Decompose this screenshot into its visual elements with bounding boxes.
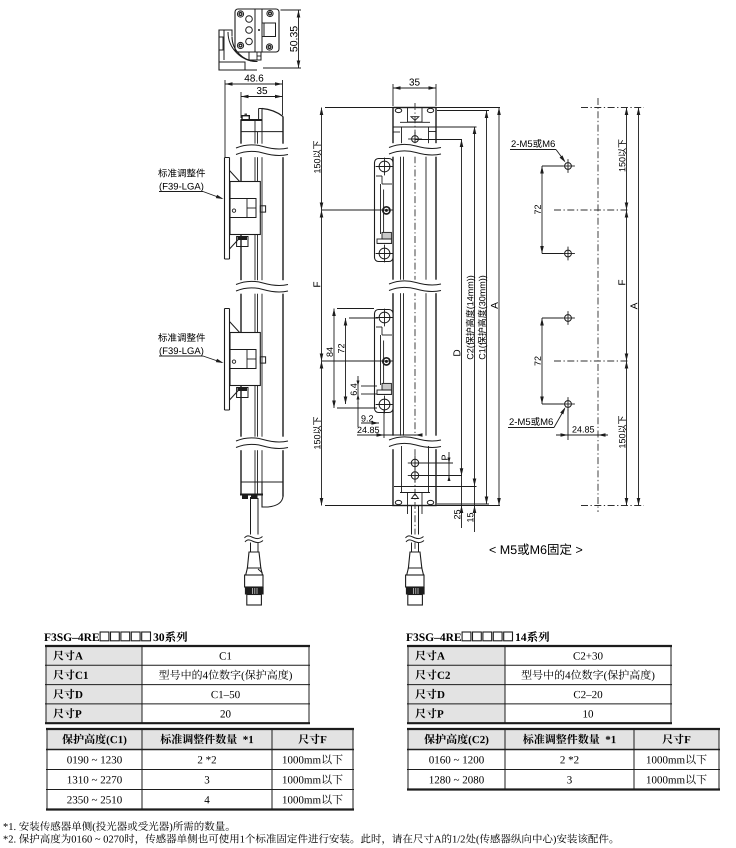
front view: dimension 35 [392,84,394,106]
front view: inner body lines [400,152,402,440]
front view: cap inner walls bottom [401,446,403,493]
side bracket plate [225,309,230,411]
front view: C2 lower extension line [394,486,477,488]
front view: connector [408,552,421,568]
front view: top cap [395,108,401,112]
top detail: F39-LGA bracket mounting plate [235,9,279,52]
side view: cable [250,497,252,552]
side bracket foot [237,237,248,247]
front view: dimension 9.2 [361,422,379,424]
side view: connector [247,552,260,568]
front bracket plate [375,159,394,262]
front view: dimension 72 (bracket) [349,317,378,319]
top detail: clamp cut-out [264,23,276,37]
mounting view: chain 150以下 / F / 150以下 [626,108,628,506]
front view: bottom cap marks [407,493,409,506]
top detail: arm step [224,30,232,36]
table: 14-series adjuster count [408,729,719,750]
front view: dimension A (front) [498,108,500,506]
front view: body outline [393,108,436,506]
top detail: adjuster holes [246,16,253,23]
mounting hole 2 [565,250,572,257]
top detail: lower tab [249,52,261,60]
label: 2-M5或M6 bottom [509,417,552,426]
mounting hole 1 [565,163,572,170]
side bracket clamp screw tab [260,206,265,212]
front view: top edge extension to A [436,107,500,109]
side bracket foot [237,388,248,398]
side view: dimension 35 [240,92,242,118]
front view: bottom edge extension to A [436,505,500,507]
top detail: arm foot [219,62,245,70]
front view: bottom cap screws [411,459,418,466]
front bracket steps [376,326,382,328]
front view: wave break 2 [389,280,441,294]
front view: left dimension chain 150以下 / F / 150以下 [325,107,393,109]
mounting view: dimension A [638,108,640,506]
table: 14-series dimensions [408,646,505,723]
mounting view: dimension 72 upper [542,165,563,167]
front view: dimension 6.4 [361,385,377,387]
mounting view: centre line vertical [597,98,599,512]
top detail: screw top-left [237,11,243,17]
mounting view: dimension 72 lower [542,317,563,319]
table: 30-series adjuster count [47,729,353,750]
front view: dimension C2 [474,127,476,533]
mounting hole 4 [565,401,572,408]
dimension 50.35 [281,9,302,11]
front view: dimension D [461,140,463,529]
label: 标准调整件 (F39-LGA) #1 [158,169,205,178]
side bracket clamp block [230,182,260,235]
front view: centre line [414,103,416,549]
front view: dimension 15 [467,513,473,522]
front bracket screws [379,161,390,172]
mounting view: bracket centre line 2 [554,360,629,362]
footnote *1 [4,821,229,832]
top detail: screw bottom-right [266,44,272,50]
side bracket diagonals [230,171,242,184]
side view: dimension 48.6 [224,80,226,157]
front bracket steps [376,175,382,177]
side view: wave break 2 [236,280,288,294]
side bracket clamp block [230,333,260,386]
side view: inner lines [254,121,256,494]
mounting view: bracket centre line 1 [554,209,629,211]
side bracket diagonals [230,322,242,335]
side view: top cap profile [241,119,263,121]
side bracket clamp screw tab [260,357,265,363]
front bracket centre screw [383,207,390,214]
label: 2-M5或M6 top [511,139,554,148]
mounting view: dimension 24.85 [567,409,569,440]
front view: dimension C1 [437,110,489,112]
top detail: side arm plate [219,30,257,70]
footnote *2 [4,834,613,845]
front bracket centre screw [383,358,390,365]
side view: wave break 1 [236,144,288,158]
front view: cable [411,506,413,553]
side view: cap joint top [241,131,283,133]
side bracket plate [225,158,230,260]
mounting view: top boundary [581,107,644,109]
front view: dimension P [448,452,450,481]
side view: body outline [240,120,242,495]
front view: dimension 84 [337,308,374,310]
side view: top clip [242,116,249,120]
mounting hole 3 [565,315,572,322]
title: F3SG-4RE□□□□□30 series [44,633,99,641]
top detail: arm arc [232,37,257,62]
front view: dimension 25 [454,510,460,519]
front view: wave break 1 [389,143,441,157]
top detail: screw top-right [267,10,273,16]
front view: top cap screw [412,136,419,143]
label: 标准调整件 (F39-LGA) #2 [158,333,205,342]
front bracket screws [379,312,390,323]
title: F3SG-4RE□□□□□14 series [406,633,461,641]
front view: wave break 3 [389,436,441,450]
front view: dimension 24.85 [383,410,385,438]
caption: M5 or M6 fixing [490,543,583,555]
side view: bottom cap [241,481,283,483]
top detail: screw bottom-left [237,42,243,48]
mounting view: bottom boundary [581,505,644,507]
front view: cap inner walls top [401,127,403,147]
side view: bottom right housing end [262,482,283,507]
front bracket plate [375,310,394,413]
table: 30-series dimensions [46,646,142,723]
side view: wave break 3 [236,437,288,451]
